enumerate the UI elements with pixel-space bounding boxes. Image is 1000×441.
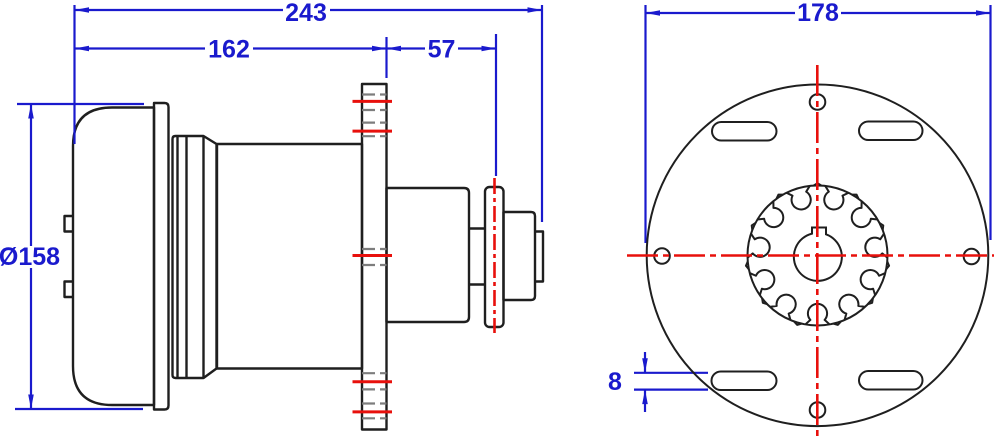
dimension line 162 — [75, 47, 206, 49]
dia158 dimension line — [30, 104, 32, 246]
ring line 3 — [202, 136, 204, 378]
centre bore hidden line b — [362, 264, 387, 266]
hub — [387, 188, 470, 322]
slot top hidden line b — [362, 135, 387, 137]
sprocket centre line (side view) — [493, 178, 496, 333]
sprocket disk side — [485, 187, 504, 327]
ring line 2 — [185, 136, 187, 378]
arrow 158 top — [28, 104, 34, 119]
8 dim upper line — [634, 372, 708, 374]
freewheel cylinder — [504, 212, 536, 300]
178 ext right — [989, 5, 991, 240]
mounting flange — [362, 84, 387, 430]
dimension line 57 — [387, 47, 426, 49]
centre bore hidden line a — [362, 248, 387, 250]
arrow 178 right — [976, 10, 991, 16]
arrow 57 left — [387, 46, 402, 52]
dia158 ext bottom — [15, 408, 143, 410]
hole bottom centre mark — [353, 410, 393, 413]
dia158 ext top — [17, 103, 144, 105]
sprocket tooth tips — [746, 183, 889, 325]
arrow 8 bottom — [642, 390, 648, 405]
arrow 162 left — [75, 46, 90, 52]
8 dim leader lower — [644, 390, 646, 412]
arrow 243 right — [528, 7, 543, 13]
svg-text:178: 178 — [797, 0, 839, 27]
extension line flange face — [385, 37, 387, 78]
motor end cap (dome) — [73, 108, 154, 406]
bolt hole bottom — [810, 402, 826, 418]
hole top centre mark — [353, 100, 393, 103]
sprocket tip circle — [748, 186, 888, 326]
8 dim lower line — [634, 389, 708, 391]
hole top hidden line a — [362, 93, 387, 95]
arrow 243 left — [75, 7, 90, 13]
dimension texts — [0, 0, 839, 396]
sprocket (front) — [746, 183, 889, 325]
178 ext left — [644, 5, 646, 243]
8 dim leader upper — [644, 352, 646, 373]
slot bottom hidden line b — [362, 388, 387, 390]
slot bottom centre mark — [353, 380, 393, 383]
vertical centre line — [816, 65, 819, 441]
slot top centre mark — [353, 130, 393, 133]
red centre marks on flange — [353, 101, 393, 412]
svg-text:Ø158: Ø158 — [0, 243, 60, 271]
ring stack — [173, 136, 217, 378]
extension line right (shaft end) — [541, 5, 543, 222]
dimension line 178 — [646, 12, 796, 14]
svg-text:243: 243 — [285, 0, 327, 27]
ring line 1 — [176, 136, 178, 378]
hole bottom hidden line a — [362, 402, 387, 404]
bolt hole right — [964, 249, 980, 265]
hidden lines on flange (gray dashed) — [362, 95, 387, 419]
slot top-right — [859, 122, 923, 141]
terminal tab lower — [65, 282, 74, 298]
slot bottom-left — [712, 372, 777, 391]
extension line left — [73, 5, 75, 144]
horizontal centre line — [627, 254, 994, 257]
dimension line 243 — [75, 9, 284, 11]
bolt hole top — [810, 94, 826, 110]
hole bottom hidden line b — [362, 417, 387, 419]
flange outer circle — [647, 85, 989, 427]
arrow 57 right — [482, 46, 497, 52]
svg-text:8: 8 — [608, 368, 622, 396]
svg-text:57: 57 — [428, 36, 456, 64]
shaft segment — [469, 229, 485, 285]
arrow 178 left — [646, 10, 661, 16]
sprocket tooth pockets — [748, 186, 888, 325]
end bell plate — [154, 103, 169, 410]
svg-text:162: 162 — [208, 36, 250, 64]
axis centre mark — [353, 254, 393, 257]
extension line sprocket centre — [495, 34, 497, 176]
arrow 8 top — [642, 358, 648, 373]
shaft tip — [535, 232, 543, 282]
slot top hidden line a — [362, 121, 387, 123]
terminal tab upper — [65, 216, 74, 232]
arrow 158 bottom — [28, 395, 34, 410]
slot top-left — [712, 122, 777, 141]
front view centre lines (red) — [627, 65, 994, 441]
motor body — [217, 144, 362, 369]
hole top hidden line b — [362, 109, 387, 111]
slot bottom hidden line a — [362, 372, 387, 374]
bolt hole left — [654, 248, 670, 264]
arrow 162 right — [372, 46, 387, 52]
bore with keyway — [794, 228, 842, 281]
slot bottom-right — [859, 371, 923, 390]
